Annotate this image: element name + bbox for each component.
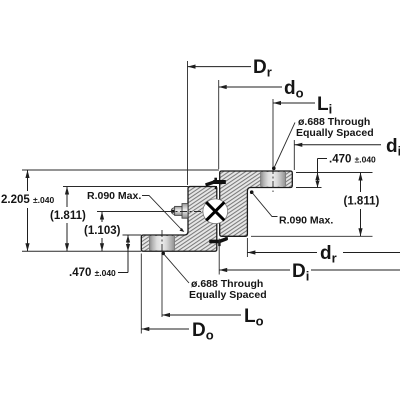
bolt hole in outer-ring flange (ø.688) [149,236,174,250]
extension line D_o (vertical) [140,254,142,334]
ball with X (rolling element) [203,199,228,224]
extension line right top (shared .470/1.811) [296,172,373,174]
extension line .470 left top [123,234,142,236]
dimension d_r [247,243,400,266]
svg-text:dr: dr [320,243,337,266]
dimension d_i [294,136,400,159]
note R.090 Max. left with leader [87,190,184,232]
extension line D_i (vertical) [218,239,220,275]
svg-text:Di: Di [292,261,309,284]
svg-text:R.090 Max.: R.090 Max. [279,215,333,227]
extension line d_i (vertical) [293,140,295,170]
dimension (1.103) left [84,212,121,252]
extension line d_o (vertical) [218,80,220,169]
extension line bottom shared (left) [22,250,141,252]
note ø.688 Through Equally Spaced (top right) with leader [272,116,374,170]
centerline of outer-ring bolt hole (L_o extension) [161,230,163,254]
bolt hole in inner-ring flange (ø.688) [261,172,286,187]
svg-text:Lo: Lo [244,306,264,329]
extension line d_r (vertical) [246,238,248,257]
svg-text:Li: Li [317,94,332,117]
svg-text:.470 ±.040: .470 ±.040 [69,267,116,279]
svg-text:(1.811): (1.811) [344,196,380,208]
dimension (1.811) left [50,187,86,252]
extension line (1.811) left top [63,186,188,188]
dimension 2.205 ±.040 (left) [1,170,54,251]
inner ring cross-section (right piece with top flange) [220,171,293,236]
svg-text:Dr: Dr [253,57,272,80]
horizontal centerline through grease fitting and ball [166,211,203,213]
dimension .470 ±.040 left [69,235,130,279]
dimension D_o [141,320,213,343]
dimension L_i [273,94,332,117]
note R.090 Max. right with leader [250,190,333,226]
grease fitting on outer ring [171,204,188,219]
extension line 2.205 top [22,169,219,171]
note ø.688 Through Equally Spaced (bottom) with leader [161,252,266,301]
dimension .470 ±.040 right [315,154,376,188]
bottom seal (black) [210,237,228,246]
extension line right (1.811) bottom [251,235,373,237]
dimension L_o [162,306,264,329]
svg-text:R.090 Max.: R.090 Max. [87,190,141,202]
outer ring cross-section (left piece with bottom flange) [141,187,217,252]
svg-text:Equally Spaced: Equally Spaced [296,127,374,139]
svg-text:di: di [386,136,400,159]
extension line (1.103) top / centerline stub [97,211,168,213]
svg-text:(1.811): (1.811) [50,210,86,222]
dimension (1.811) right [344,173,380,237]
svg-text:do: do [284,78,304,101]
top seal (black) [206,178,226,190]
extension line D_r (vertical) [187,61,189,185]
extension line right .470 bottom [296,187,322,189]
svg-text:Do: Do [192,320,214,343]
dimension D_i [219,261,400,284]
svg-text:.470 ±.040: .470 ±.040 [329,154,376,166]
dimension D_r [188,57,272,80]
svg-text:Equally Spaced: Equally Spaced [189,289,267,301]
svg-text:2.205 ±.040: 2.205 ±.040 [1,194,54,206]
svg-text:(1.103): (1.103) [84,225,121,237]
dimension d_o [219,78,304,101]
centerline of inner-ring bolt hole (L_i extension) [272,99,274,167]
